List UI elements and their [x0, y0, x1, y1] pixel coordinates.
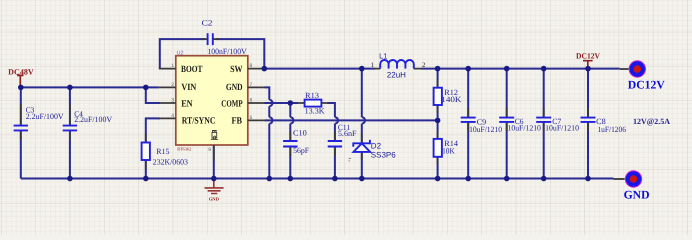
- svg-text:4: 4: [171, 113, 174, 119]
- junction C6 bottom: [504, 176, 510, 182]
- resistor R12: [434, 79, 442, 113]
- node DC12V output port: [620, 61, 646, 77]
- pin FB: [248, 119, 265, 121]
- svg-text:SW: SW: [230, 65, 243, 75]
- capacitor C4: [63, 104, 77, 140]
- svg-text:2.2uF/100V: 2.2uF/100V: [26, 112, 64, 121]
- svg-text:10uF/1210: 10uF/1210: [508, 123, 541, 132]
- junction C8/DC12V: [585, 66, 591, 72]
- resistor R13: [298, 100, 329, 107]
- svg-text:L1: L1: [379, 52, 387, 61]
- capacitor C10: [283, 132, 297, 157]
- pin SW: [248, 68, 265, 70]
- svg-text:56pF: 56pF: [293, 146, 310, 155]
- svg-text:R15: R15: [156, 147, 169, 156]
- svg-text:R13: R13: [305, 91, 319, 100]
- capacitor C11: [328, 132, 342, 157]
- junction IC pad/ground: [211, 176, 217, 182]
- wire EN branch: [146, 87, 160, 103]
- junction D2 bottom: [359, 176, 365, 182]
- junction R14 bottom: [435, 176, 441, 182]
- svg-text:RT/SYNC: RT/SYNC: [182, 116, 216, 126]
- svg-text:22uH: 22uH: [387, 70, 406, 79]
- op-amp U2 IC body: [176, 56, 248, 145]
- svg-text:C2: C2: [202, 19, 213, 28]
- svg-text:VIN: VIN: [181, 83, 196, 93]
- wire C8 column: [587, 69, 589, 179]
- svg-text:RT6362: RT6362: [177, 147, 191, 152]
- svg-text:FB: FB: [232, 116, 243, 126]
- svg-text:10uF/1210: 10uF/1210: [469, 125, 502, 134]
- wire C9 column: [467, 69, 469, 179]
- pin VIN: [159, 86, 176, 88]
- pin EN: [159, 102, 176, 104]
- svg-text:COMP: COMP: [221, 99, 242, 109]
- capacitor C9: [461, 108, 476, 131]
- junction C7 bottom: [541, 176, 547, 182]
- wire D2 column with hop: [362, 69, 365, 179]
- capacitor C6: [499, 108, 514, 131]
- junction DC48V/C3: [18, 85, 24, 91]
- capacitor C2: [201, 33, 219, 45]
- junction C10 bottom: [288, 176, 294, 182]
- wire R12 R14 column: [437, 69, 439, 179]
- svg-text:6: 6: [250, 97, 253, 103]
- svg-text:10uF/1210: 10uF/1210: [545, 123, 579, 132]
- wire VIN rail: [21, 86, 159, 88]
- wire ground rail: [21, 178, 614, 180]
- pin BOOT: [159, 68, 176, 70]
- resistor R15: [142, 133, 150, 169]
- wire C3 column: [20, 87, 22, 178]
- junction D2 top: [359, 66, 365, 72]
- wire R13 right to C11 column: [328, 103, 339, 179]
- svg-text:BOOT: BOOT: [181, 65, 203, 75]
- node GND output port: [614, 171, 642, 187]
- power port DC48V: [17, 75, 23, 87]
- wire C4 column: [69, 87, 71, 178]
- inductor L1: [374, 60, 421, 69]
- wire GND pin drop with hops: [265, 87, 273, 178]
- wire COMP net: [265, 102, 299, 104]
- wire C10 column with hop: [290, 103, 293, 179]
- ground symbol GND: [205, 179, 224, 202]
- resistor R14: [434, 131, 442, 166]
- junction GND pin drop bottom: [267, 176, 273, 182]
- junction COMP/R13/C10: [288, 100, 294, 106]
- svg-text:EN: EN: [181, 99, 193, 109]
- wire RT/SYNC to R15: [146, 118, 160, 142]
- junction R12 top: [435, 66, 441, 72]
- capacitor C7: [536, 108, 551, 131]
- pin 9 ground pad: [213, 145, 215, 161]
- svg-text:2: 2: [171, 82, 174, 88]
- svg-text:GND: GND: [209, 196, 220, 201]
- svg-text:3: 3: [171, 97, 174, 103]
- svg-text:7: 7: [250, 82, 253, 88]
- svg-text:DC48V: DC48V: [8, 68, 34, 77]
- svg-text:DC12V: DC12V: [628, 79, 666, 92]
- pin RT/SYNC: [159, 117, 176, 119]
- svg-text:12V@2.5A: 12V@2.5A: [633, 117, 670, 126]
- svg-text:9: 9: [208, 147, 211, 153]
- svg-text:100nF/100V: 100nF/100V: [207, 47, 247, 56]
- power port DC12V small: [583, 61, 593, 69]
- junction SW/C2: [262, 66, 268, 72]
- wire R15 bottom: [145, 160, 147, 179]
- junction C4/VIN rail: [67, 85, 73, 91]
- svg-text:8: 8: [250, 63, 253, 69]
- svg-text:DC12V: DC12V: [576, 52, 600, 61]
- junction C9 bottom: [465, 176, 471, 182]
- diode D2 SS3P6: [349, 133, 371, 161]
- capacitor C8: [581, 108, 596, 131]
- svg-text:GND: GND: [226, 83, 243, 93]
- wire BOOT loop: [160, 39, 264, 69]
- pin GND: [248, 86, 265, 88]
- svg-text:SS3P6: SS3P6: [371, 151, 396, 160]
- junction C4 bottom: [67, 176, 73, 182]
- junction C11 bottom: [332, 176, 338, 182]
- svg-text:D2: D2: [371, 141, 382, 150]
- junction C8 bottom: [585, 176, 591, 182]
- svg-text:U2: U2: [177, 51, 184, 57]
- svg-text:140K: 140K: [441, 95, 461, 104]
- wire C6 column: [506, 69, 508, 179]
- svg-text:5.6nF: 5.6nF: [338, 129, 357, 138]
- junction R15 bottom: [143, 176, 149, 182]
- wire FB net: [265, 119, 438, 121]
- junction C9 top: [465, 66, 471, 72]
- svg-text:5: 5: [250, 115, 253, 121]
- junction EN branch: [143, 85, 149, 91]
- junction FB/R12/R14: [435, 118, 441, 124]
- svg-text:1: 1: [371, 62, 374, 69]
- svg-text:C10: C10: [293, 129, 307, 138]
- svg-text:GND: GND: [624, 189, 650, 202]
- svg-text:1: 1: [171, 63, 174, 69]
- wire IC ground pad to rail: [213, 145, 215, 179]
- wire C7 column: [543, 69, 545, 179]
- svg-text:232K/0603: 232K/0603: [153, 157, 188, 166]
- wire SW rail: [264, 68, 619, 70]
- IC flag marker: [211, 131, 218, 140]
- junction C7 top: [541, 66, 547, 72]
- svg-text:2.2uF/100V: 2.2uF/100V: [74, 115, 112, 124]
- pin COMP: [248, 102, 265, 104]
- svg-text:10K: 10K: [442, 146, 455, 155]
- svg-text:13.3K: 13.3K: [305, 107, 325, 116]
- junction C6 top: [504, 66, 510, 72]
- svg-text:2: 2: [422, 62, 426, 69]
- svg-text:1uF/1206: 1uF/1206: [597, 125, 626, 134]
- capacitor C3: [14, 104, 28, 140]
